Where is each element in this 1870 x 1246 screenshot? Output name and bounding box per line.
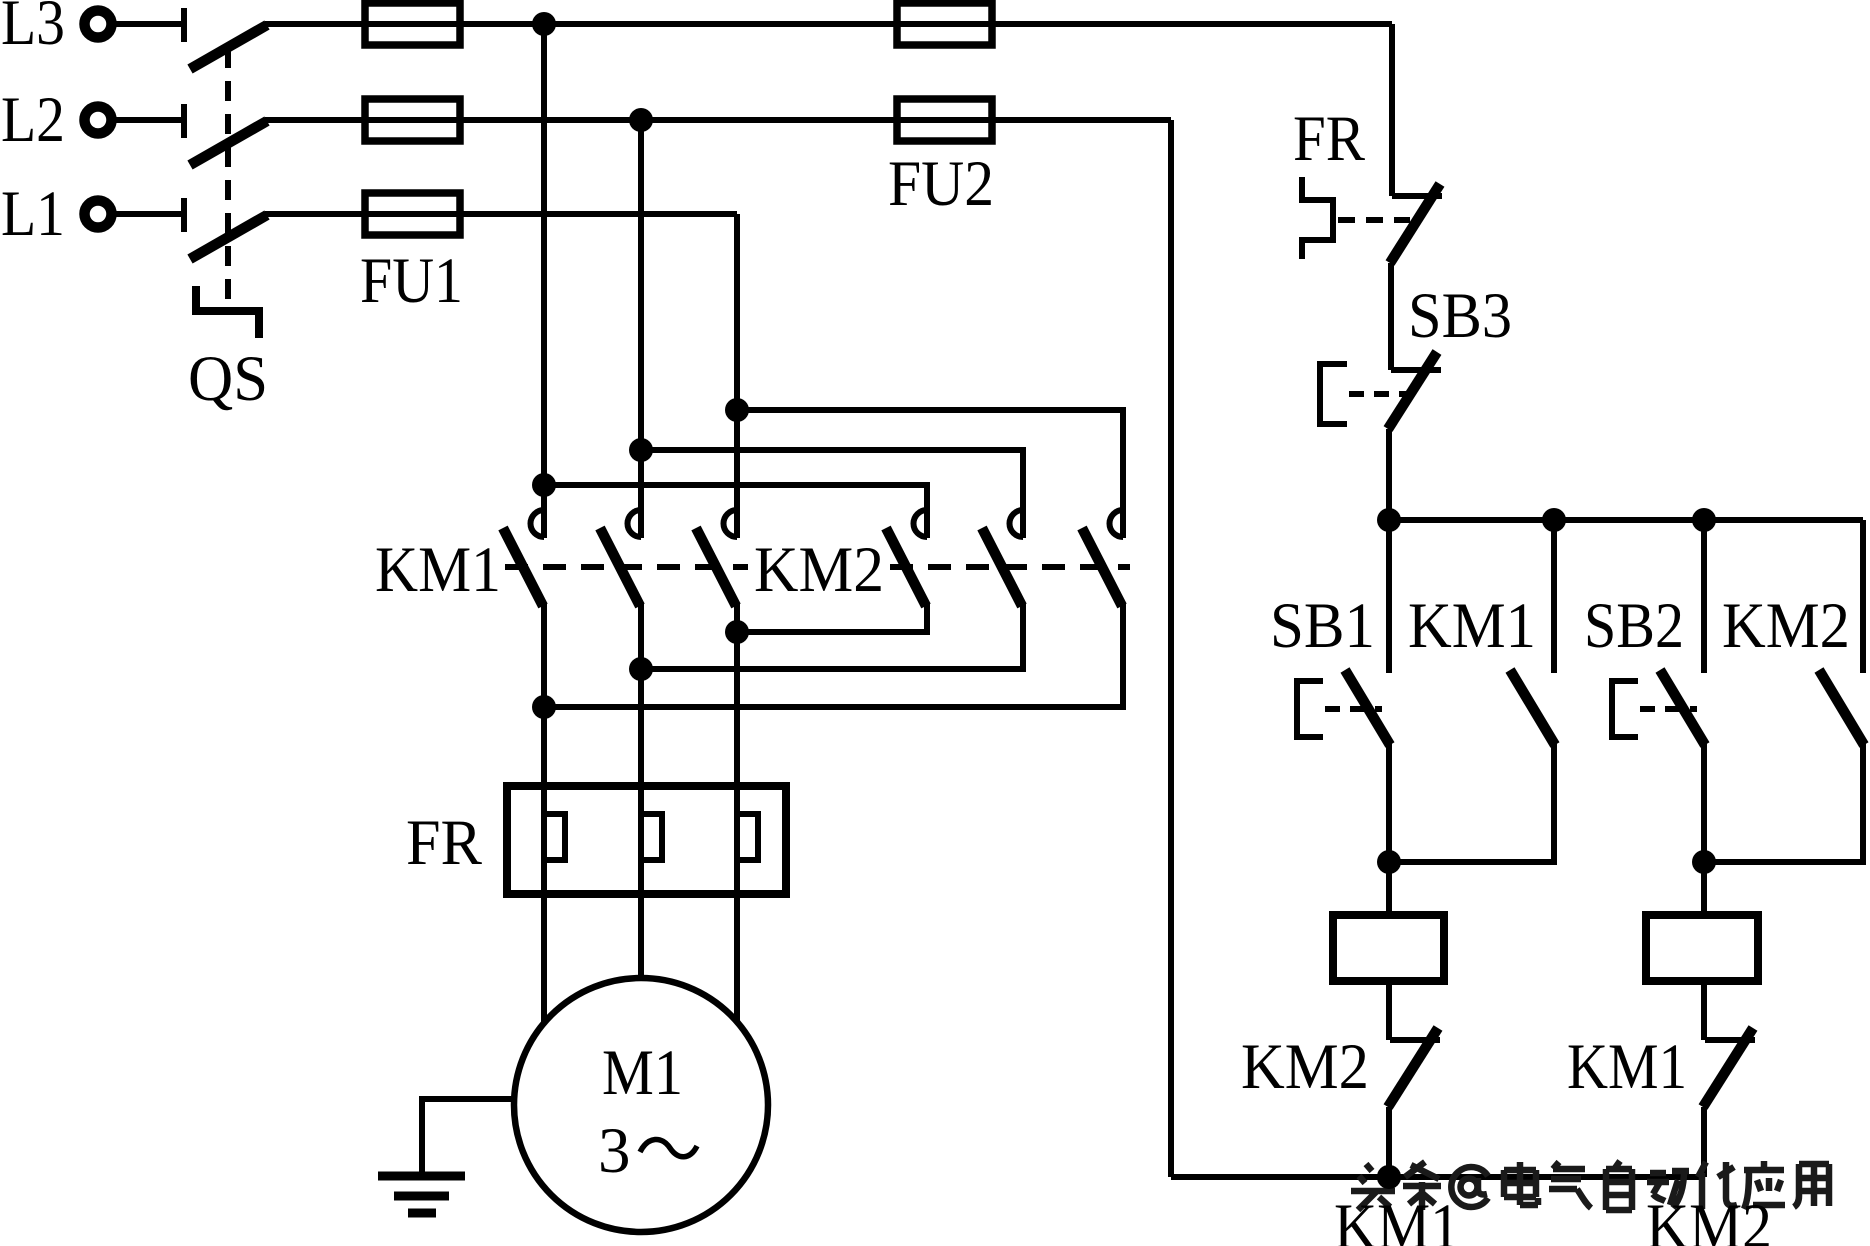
switch QS pole 3 fixed jaw (181, 198, 187, 232)
wire KM2 interlock lower over halo (1701, 1107, 1707, 1177)
svg-text:SB1: SB1 (1270, 590, 1375, 662)
wire control bottom rail (1171, 1174, 1704, 1180)
pushbutton SB1 blade (1345, 670, 1390, 745)
contactor KM2 main contact pole 2 blade (982, 528, 1022, 606)
contactor KM1 main contact pole 1 blade (503, 528, 543, 606)
interlock KM1 NC blade (1703, 1028, 1753, 1107)
wire crossover B-top to KM2 pole2 (641, 450, 1023, 538)
thermal relay FR NC contact tick (1392, 193, 1442, 199)
wire L3 terminal stub (116, 21, 184, 27)
svg-text:KM1: KM1 (1408, 590, 1536, 662)
svg-text:SB2: SB2 (1584, 590, 1684, 662)
switch QS pole 2 fixed jaw (181, 104, 187, 138)
svg-text:QS: QS (188, 343, 268, 415)
ground bar 1 (378, 1172, 465, 1181)
coil KM1 (1333, 915, 1444, 981)
node junction dot SB1/KM1 join (1377, 850, 1401, 874)
pushbutton SB3 dashed link (1349, 391, 1406, 397)
switch QS pole 1 blade (190, 25, 267, 69)
svg-text:KM1: KM1 (1567, 1031, 1687, 1103)
coil KM2 (1646, 915, 1758, 981)
wire SB1 branch upper (1386, 520, 1392, 673)
svg-text:KM2: KM2 (1241, 1031, 1369, 1103)
contactor KM1 main contact pole 2 arc (628, 510, 642, 537)
contactor KM1 auxiliary NO blade (1510, 670, 1555, 745)
wire L3 row (265, 21, 1392, 27)
svg-text:KM2: KM2 (1646, 1191, 1772, 1246)
wire KM2 aux branch lower (1704, 743, 1863, 862)
wire crossover C-top to KM2 pole3 (737, 410, 1123, 538)
wire KM2 aux branch upper (1860, 520, 1866, 673)
motor tilde mark (640, 1139, 697, 1156)
svg-text:L2: L2 (1, 84, 65, 156)
pushbutton SB1 dashed link (1325, 706, 1382, 712)
wire phase C vertical lower (734, 604, 740, 1021)
wire L2 terminal stub (116, 117, 184, 123)
node junction dot SB2/KM2 join (1692, 850, 1716, 874)
pushbutton SB2 blade (1660, 670, 1705, 745)
svg-text:L1: L1 (1, 178, 65, 250)
wire phase B vertical upper (638, 120, 644, 538)
contactor KM1 main contact pole 1 arc (531, 510, 545, 537)
switch QS linkage dashed (225, 48, 231, 310)
wire phase C vertical upper (734, 214, 740, 538)
wire L2 down to control circuit left rail (1168, 120, 1174, 1177)
wire SB3 to bus (1386, 429, 1392, 520)
contactor KM1 main contact pole 2 blade (600, 528, 640, 606)
svg-text:KM2: KM2 (754, 534, 884, 606)
wire control bottom rail over halo (1171, 1174, 1704, 1180)
wire phase A vertical upper (541, 24, 547, 538)
wire L1 row (265, 211, 737, 217)
svg-text:M1: M1 (602, 1037, 683, 1109)
switch QS pole 2 blade (190, 121, 267, 165)
wire KM1 coil to KM2 interlock (1386, 981, 1392, 1040)
pushbutton SB2 actuator (1612, 681, 1638, 737)
interlock KM2 NC blade (1388, 1028, 1438, 1107)
pushbutton SB3 actuator (1320, 364, 1347, 424)
thermal relay FR NC dashed link (1338, 217, 1410, 223)
wire crossover A-top to KM2 pole1 (544, 485, 927, 538)
svg-text:KM1: KM1 (375, 534, 501, 606)
wire KM1 aux branch upper (1551, 520, 1557, 673)
svg-text:SB3: SB3 (1408, 280, 1512, 352)
node junction dot KM2 pole2 to B (629, 657, 653, 681)
wire SB2 branch upper (1701, 520, 1707, 673)
thermal relay FR NC actuator bracket (1302, 177, 1333, 259)
fuse FU1 pole 1 (365, 3, 460, 45)
pushbutton SB1 actuator (1297, 681, 1323, 737)
ground bar 2 (394, 1192, 449, 1201)
wire SB2 branch lower (1701, 743, 1707, 862)
watermark toutiao dianqi zidonghua yingyong (1351, 1161, 1829, 1210)
wire L1 terminal stub (116, 211, 184, 217)
wire L3 down to control circuit (1389, 24, 1395, 196)
terminal L1 (85, 201, 112, 228)
svg-text:FU2: FU2 (888, 148, 994, 220)
interlock KM1 NC tick (1705, 1037, 1755, 1043)
wire KM2 pole 1 bottom crossover to phase C (737, 604, 927, 632)
contactor KM1 main contact pole 3 arc (724, 510, 738, 537)
terminal L3 (85, 11, 112, 38)
fuse FU1 pole 2 (365, 99, 460, 141)
svg-text:FU1: FU1 (360, 245, 463, 317)
svg-text:L3: L3 (1, 0, 65, 59)
thermal relay FR heater element 2 (643, 814, 662, 860)
thermal relay FR heater element 3 (739, 814, 758, 860)
node junction dot bus/SB1 (1377, 508, 1401, 532)
wire KM1 aux branch lower (1389, 743, 1554, 862)
node junction dot bottom rail (1377, 1165, 1401, 1189)
wire KM2 coil to KM1 interlock (1701, 981, 1707, 1040)
thermal relay FR NC contact blade (1390, 184, 1440, 263)
contactor KM2 main contact pole 2 arc (1010, 510, 1024, 537)
node junction dot bottom rail over halo (1377, 1165, 1401, 1189)
node junction dot KM2 pole1 to C (725, 620, 749, 644)
node junction dot bus/KM1aux (1542, 508, 1566, 532)
wire KM1 interlock lower over halo (1386, 1107, 1392, 1177)
wire phase A vertical lower (541, 604, 547, 1024)
wire phase B vertical lower (638, 604, 644, 979)
wire FR to SB3 (1388, 263, 1394, 370)
contactor KM2 main contact pole 1 arc (913, 510, 927, 537)
fuse FU1 pole 3 (365, 193, 460, 235)
pushbutton SB2 dashed link (1640, 706, 1697, 712)
svg-text:KM2: KM2 (1722, 590, 1850, 662)
wire KM1 interlock to bottom rail (1701, 1107, 1707, 1177)
node junction dot bus/SB2 (1692, 508, 1716, 532)
contactor KM2 auxiliary NO blade (1819, 670, 1864, 745)
node junction dot phase C to KM2 crossover (725, 398, 749, 422)
motor M1 circle (514, 978, 768, 1232)
svg-text:FR: FR (406, 807, 483, 879)
contactor KM2 main contact pole 3 blade (1082, 528, 1122, 606)
contactor KM2 main contact pole 1 blade (886, 528, 926, 606)
pushbutton SB3 NC tick (1391, 367, 1441, 373)
fuse FU2 pole 1 (897, 3, 992, 45)
contactor KM2 main contact pole 3 arc (1110, 510, 1124, 537)
switch QS handle (196, 286, 259, 338)
ground bar 3 (408, 1209, 436, 1218)
fuse FU2 pole 2 (897, 99, 992, 141)
node junction dot KM2 pole3 to A (532, 695, 556, 719)
pushbutton SB3 NC blade (1388, 352, 1437, 429)
wire motor earth lead (422, 1099, 514, 1172)
svg-text:FR: FR (1293, 103, 1366, 175)
contactor KM1 main contact pole 3 blade (696, 528, 736, 606)
svg-text:3: 3 (598, 1115, 631, 1187)
wire into KM1 coil (1386, 862, 1392, 915)
terminal L2 (85, 107, 112, 134)
switch QS pole 3 blade (190, 215, 267, 259)
contactor KM1 linkage dashed (505, 564, 748, 570)
node junction dot L3/phase-A (532, 12, 556, 36)
wire KM2 pole 2 bottom crossover to phase B (641, 604, 1023, 669)
node junction dot phase B to KM2 crossover (629, 438, 653, 462)
interlock KM2 NC tick (1390, 1037, 1440, 1043)
thermal relay FR heater box (507, 786, 786, 894)
wire L2 row (265, 117, 1171, 123)
wire control top bus (1389, 517, 1863, 523)
switch QS pole 1 fixed jaw (181, 8, 187, 42)
svg-text:KM1: KM1 (1334, 1191, 1460, 1246)
node junction dot bottom rail redraw (1377, 1165, 1401, 1189)
node junction dot L2/phase-B (629, 108, 653, 132)
wire SB1 branch lower (1386, 743, 1392, 862)
wire into KM2 coil (1701, 862, 1707, 915)
wire KM2 interlock to bottom rail (1386, 1107, 1392, 1177)
wire KM2 pole 3 bottom crossover to phase A (544, 604, 1123, 707)
contactor KM2 linkage dashed (890, 564, 1130, 570)
node junction dot phase A to KM2 crossover (532, 473, 556, 497)
thermal relay FR heater element 1 (546, 814, 565, 860)
